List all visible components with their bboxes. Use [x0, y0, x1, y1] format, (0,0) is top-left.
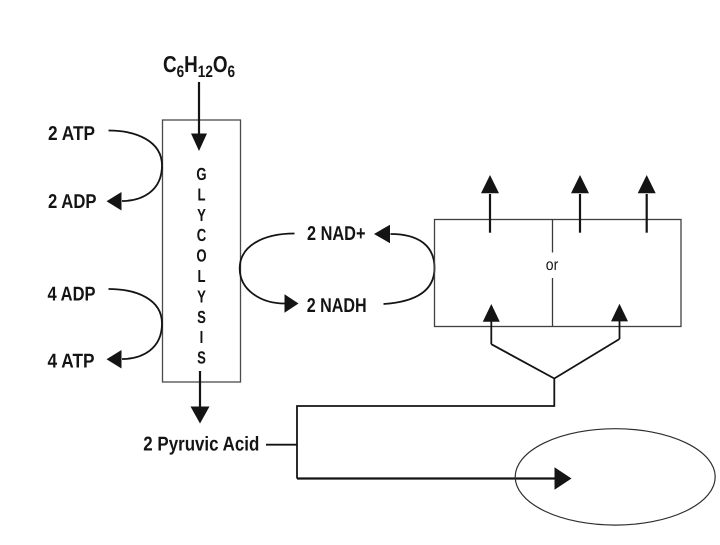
- NAD cycle right arc with arrowhead to 2 NAD+: [384, 234, 435, 304]
- wire to fermentation ellipse with arrowhead: [297, 477, 555, 479]
- fates box (or box): [435, 220, 682, 327]
- svg-text:Y: Y: [197, 286, 206, 306]
- svg-text:G: G: [196, 164, 206, 184]
- branch wire up to fates box V: [297, 379, 554, 479]
- top output arrow 2: [571, 175, 589, 233]
- svg-text:2 ATP: 2 ATP: [48, 123, 95, 145]
- svg-text:S: S: [197, 307, 206, 327]
- svg-text:2 NAD+: 2 NAD+: [307, 223, 366, 245]
- svg-text:S: S: [197, 348, 206, 368]
- curved arrow 2 ATP to 2 ADP: [109, 131, 163, 202]
- fates box divider: [552, 220, 554, 327]
- svg-text:I: I: [200, 327, 204, 347]
- svg-text:C: C: [197, 225, 207, 245]
- curved arrow 4 ADP to 4 ATP: [109, 289, 163, 359]
- fermentation ellipse: [515, 429, 715, 525]
- GLYCOLYSIS vertical letters: [196, 164, 206, 368]
- svg-text:Y: Y: [197, 205, 206, 225]
- svg-text:L: L: [197, 184, 205, 204]
- connector dash from 2 Pyruvic Acid: [266, 444, 297, 446]
- glucose formula C6H12O6: [163, 51, 235, 81]
- top output arrow 1: [481, 175, 499, 233]
- top output arrow 3: [638, 175, 656, 233]
- svg-text:O: O: [196, 246, 206, 266]
- svg-text:2 ADP: 2 ADP: [48, 191, 97, 213]
- bottom input arrow left into fates box: [491, 321, 554, 379]
- arrow glycolysis box down to 2 Pyruvic Acid: [191, 371, 210, 424]
- svg-text:or: or: [546, 257, 559, 274]
- glycolysis box: [163, 120, 241, 382]
- svg-text:4 ATP: 4 ATP: [48, 351, 95, 373]
- svg-text:L: L: [197, 266, 205, 286]
- svg-text:2 NADH: 2 NADH: [307, 295, 367, 317]
- NAD cycle left arc with arrowhead to 2 NADH: [240, 234, 295, 304]
- svg-text:4 ADP: 4 ADP: [48, 284, 96, 306]
- bottom input arrow right into fates box: [554, 321, 619, 379]
- arrow glucose into glycolysis box: [191, 82, 207, 151]
- svg-text:2 Pyruvic Acid: 2 Pyruvic Acid: [143, 434, 259, 456]
